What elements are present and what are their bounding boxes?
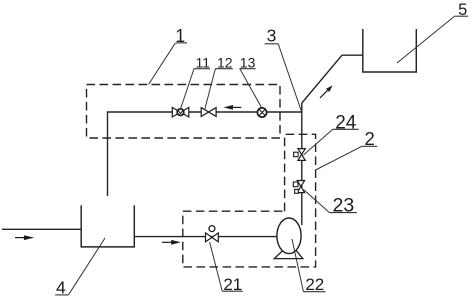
svg-text:11: 11 [196,54,211,70]
svg-text:3: 3 [267,26,277,46]
svg-text:24: 24 [335,113,357,134]
svg-text:13: 13 [240,54,256,70]
svg-text:12: 12 [217,54,233,70]
